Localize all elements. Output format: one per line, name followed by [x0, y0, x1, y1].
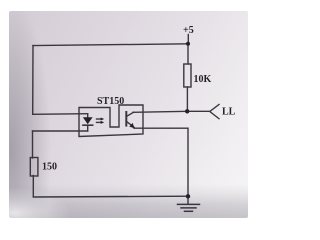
- svg-text:10K: 10K: [194, 74, 212, 85]
- svg-text:150: 150: [42, 162, 57, 173]
- svg-text:LL: LL: [222, 107, 236, 118]
- svg-text:ST150: ST150: [97, 96, 124, 107]
- svg-text:+5: +5: [183, 25, 194, 36]
